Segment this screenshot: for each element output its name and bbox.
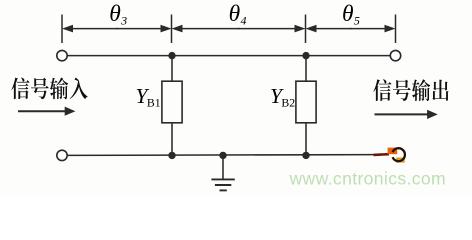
wire: YB2 lower lead xyxy=(305,123,307,156)
junction: ground to bottom rail xyxy=(219,152,226,159)
terminal: output port top (open circle) xyxy=(390,50,400,60)
junction: YB1 to bottom rail xyxy=(168,152,175,159)
stub YB1 (open-stub rectangle) xyxy=(162,81,182,123)
stub YB2 (open-stub rectangle) xyxy=(296,81,316,123)
junction node B (top of YB2) xyxy=(302,52,309,59)
wire: YB1 upper lead xyxy=(171,56,173,82)
signal output arrow xyxy=(375,113,429,115)
wire: top rail xyxy=(67,55,390,57)
junction: YB2 to bottom rail xyxy=(302,152,309,159)
svg-text:B1: B1 xyxy=(147,96,161,110)
ground xyxy=(211,155,234,190)
dimension tick 3 xyxy=(305,15,307,44)
label: signal output (信号输出) xyxy=(373,79,448,101)
signal input arrow xyxy=(18,110,67,112)
dimension line θ3 xyxy=(71,28,118,30)
label: signal input (信号输入) xyxy=(11,77,87,99)
junction node A (top of YB1) xyxy=(168,52,175,59)
wire: YB2 upper lead xyxy=(305,56,307,82)
dimension tick 1 xyxy=(61,15,63,44)
svg-text:www.cntronics.com: www.cntronics.com xyxy=(289,169,447,189)
dimension tick 4 xyxy=(395,15,397,44)
dimension line θ4 xyxy=(181,28,240,30)
dimension tick 2 xyxy=(171,15,173,44)
svg-text:B2: B2 xyxy=(281,96,295,110)
terminal: input port top (open circle) xyxy=(57,50,67,60)
watermark logo (orange icon at rail end) xyxy=(388,148,405,163)
terminal: input port bottom (open circle) xyxy=(57,150,67,160)
wire: YB1 lower lead xyxy=(171,123,173,156)
wire: bottom rail end segment (dark red) xyxy=(374,153,390,156)
wire: bottom rail xyxy=(67,154,376,157)
dimension line θ5 xyxy=(315,28,352,30)
